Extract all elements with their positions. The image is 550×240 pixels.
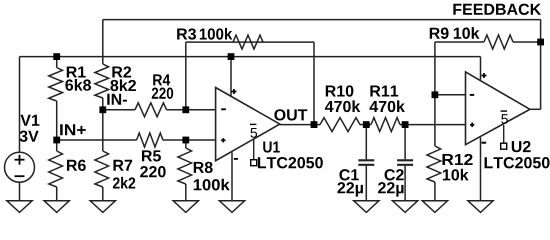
net label IN-	[107, 94, 127, 105]
wire R2 top lead from FEEDBACK	[102, 20, 104, 64]
resistor R4	[135, 103, 167, 117]
ground V1	[7, 201, 32, 213]
wire U2 V- supply lead	[480, 138, 482, 202]
wire U1 output to R10	[280, 124, 320, 126]
resistor R5	[137, 133, 163, 147]
wire C1 top lead	[365, 125, 367, 160]
node junction R10/R11/C1	[363, 121, 370, 128]
wire U1 V+ supply lead	[230, 57, 232, 96]
ground C2	[393, 201, 418, 213]
wire U2 V+ supply lead	[480, 57, 482, 80]
resistor R6	[49, 151, 63, 187]
node OUT junction R3	[311, 121, 318, 128]
label R8	[194, 162, 213, 173]
wire IN- node to R4	[103, 109, 135, 111]
wire R6 top lead	[56, 140, 58, 151]
wire R9 right to FEEDBACK vertical	[513, 41, 541, 43]
value R11 470k	[370, 100, 405, 112]
wire U1 V- supply lead	[231, 152, 233, 201]
wire FEEDBACK right vertical	[540, 20, 542, 110]
value R2 8k2	[110, 79, 136, 91]
value R4 220	[152, 88, 173, 99]
value V1 3V	[20, 131, 39, 142]
node junction R9/FEEDBACK	[537, 39, 544, 46]
wire R7 top lead	[102, 110, 104, 151]
label R9	[430, 28, 449, 39]
wire C2 bottom lead	[404, 166, 406, 201]
node IN+ junction R5/R8/U1	[182, 137, 189, 144]
wire R8 top lead	[185, 140, 187, 148]
wire R8 bottom lead	[185, 184, 187, 201]
wire R4 to U1 inverting input	[167, 109, 216, 111]
wire V1 bottom lead	[19, 182, 21, 201]
wire R6 bottom lead	[56, 187, 58, 201]
ground R7	[90, 201, 115, 213]
op-amp U1	[216, 88, 280, 161]
label U2	[512, 141, 531, 152]
wire R1 bottom to IN+ node	[56, 101, 58, 140]
op-amp U2 pin 5	[501, 111, 508, 149]
resistor R2	[95, 64, 109, 98]
node IN- junction R3/R4/U1	[182, 106, 189, 113]
resistor R9	[484, 35, 513, 49]
value R8 100k	[194, 179, 230, 191]
resistor R1	[49, 68, 63, 102]
value R3 100k	[200, 28, 233, 40]
label R6	[67, 160, 86, 171]
ground U2 V-	[468, 201, 493, 213]
label C2	[385, 169, 404, 180]
ground R12	[422, 201, 447, 213]
wire R12 bottom lead	[434, 182, 436, 201]
ground R8	[173, 201, 198, 213]
wire R9 left horizontal	[435, 41, 484, 43]
value R12 10k	[443, 169, 469, 181]
label R5	[142, 150, 161, 161]
value C2 22u	[378, 182, 404, 197]
ground R6	[44, 201, 69, 213]
wire IN+ node to R5	[57, 139, 137, 141]
wire U2 inverting input	[435, 94, 466, 96]
value R1 6k8	[65, 79, 91, 91]
ground C1	[354, 201, 379, 213]
wire FEEDBACK net top	[103, 19, 541, 21]
resistor R7	[95, 151, 109, 187]
label R2	[112, 66, 131, 77]
net label FEEDBACK	[453, 4, 541, 15]
node IN+ junction R1/R6/R5	[53, 137, 60, 144]
op-amp U2	[466, 72, 530, 145]
ground U1 V-	[219, 201, 244, 213]
resistor R11	[371, 118, 400, 132]
label R4	[153, 74, 170, 85]
wire R3 left lead down to IN-	[185, 42, 187, 110]
node junction R11/C2/U2	[402, 121, 409, 128]
wire R11 to U2 non-inverting input	[400, 124, 466, 126]
wire V1 top lead	[19, 57, 21, 153]
resistor R3	[233, 35, 263, 49]
wire R2 bottom to IN- node	[102, 98, 104, 110]
value R9 10k	[454, 27, 480, 39]
resistor R12	[427, 146, 441, 182]
part number U1 LTC2050	[258, 157, 323, 168]
wire R3 right lead down to OUT	[313, 42, 315, 125]
wire R3 net horizontal	[186, 41, 314, 43]
resistor R10	[320, 118, 360, 132]
label R10	[326, 85, 354, 96]
wire V+ rail	[20, 56, 481, 58]
op-amp U1 pin 5	[250, 124, 257, 165]
capacitor C1	[358, 160, 374, 165]
label R1	[67, 66, 86, 77]
wire R1 top lead	[56, 57, 58, 68]
wire C1 bottom lead	[365, 166, 367, 201]
value R7 2k2	[113, 177, 135, 189]
node junction R9/R12/U2 inverting	[432, 91, 439, 98]
value C1 22u	[337, 182, 363, 197]
label C1	[339, 169, 358, 180]
label V1	[20, 115, 39, 126]
wire C2 top lead	[404, 125, 406, 160]
wire R7 bottom lead	[102, 187, 104, 201]
value R5 220	[140, 166, 165, 177]
wire U2 output	[530, 108, 541, 110]
node IN- junction R2/R4	[99, 106, 106, 113]
node junction V+ rail / U1 V+	[228, 53, 235, 60]
label R3	[177, 28, 196, 39]
wire R10 to R11	[360, 124, 371, 126]
label R7	[113, 160, 132, 171]
part number U2 LTC2050	[485, 157, 550, 168]
capacitor C2	[397, 160, 413, 165]
wire R9 left lead down through U2 inverting node to R12	[434, 42, 436, 146]
node junction V+ rail / R1	[53, 53, 60, 60]
wire R5 to U1 non-inverting input	[163, 139, 216, 141]
resistor R8	[178, 148, 192, 184]
label R12	[442, 154, 472, 165]
value R10 470k	[325, 100, 360, 112]
label U1	[263, 141, 280, 152]
voltage source V1	[5, 152, 35, 182]
net label OUT	[274, 109, 307, 120]
label R11	[370, 85, 398, 96]
net label IN+	[60, 124, 86, 135]
